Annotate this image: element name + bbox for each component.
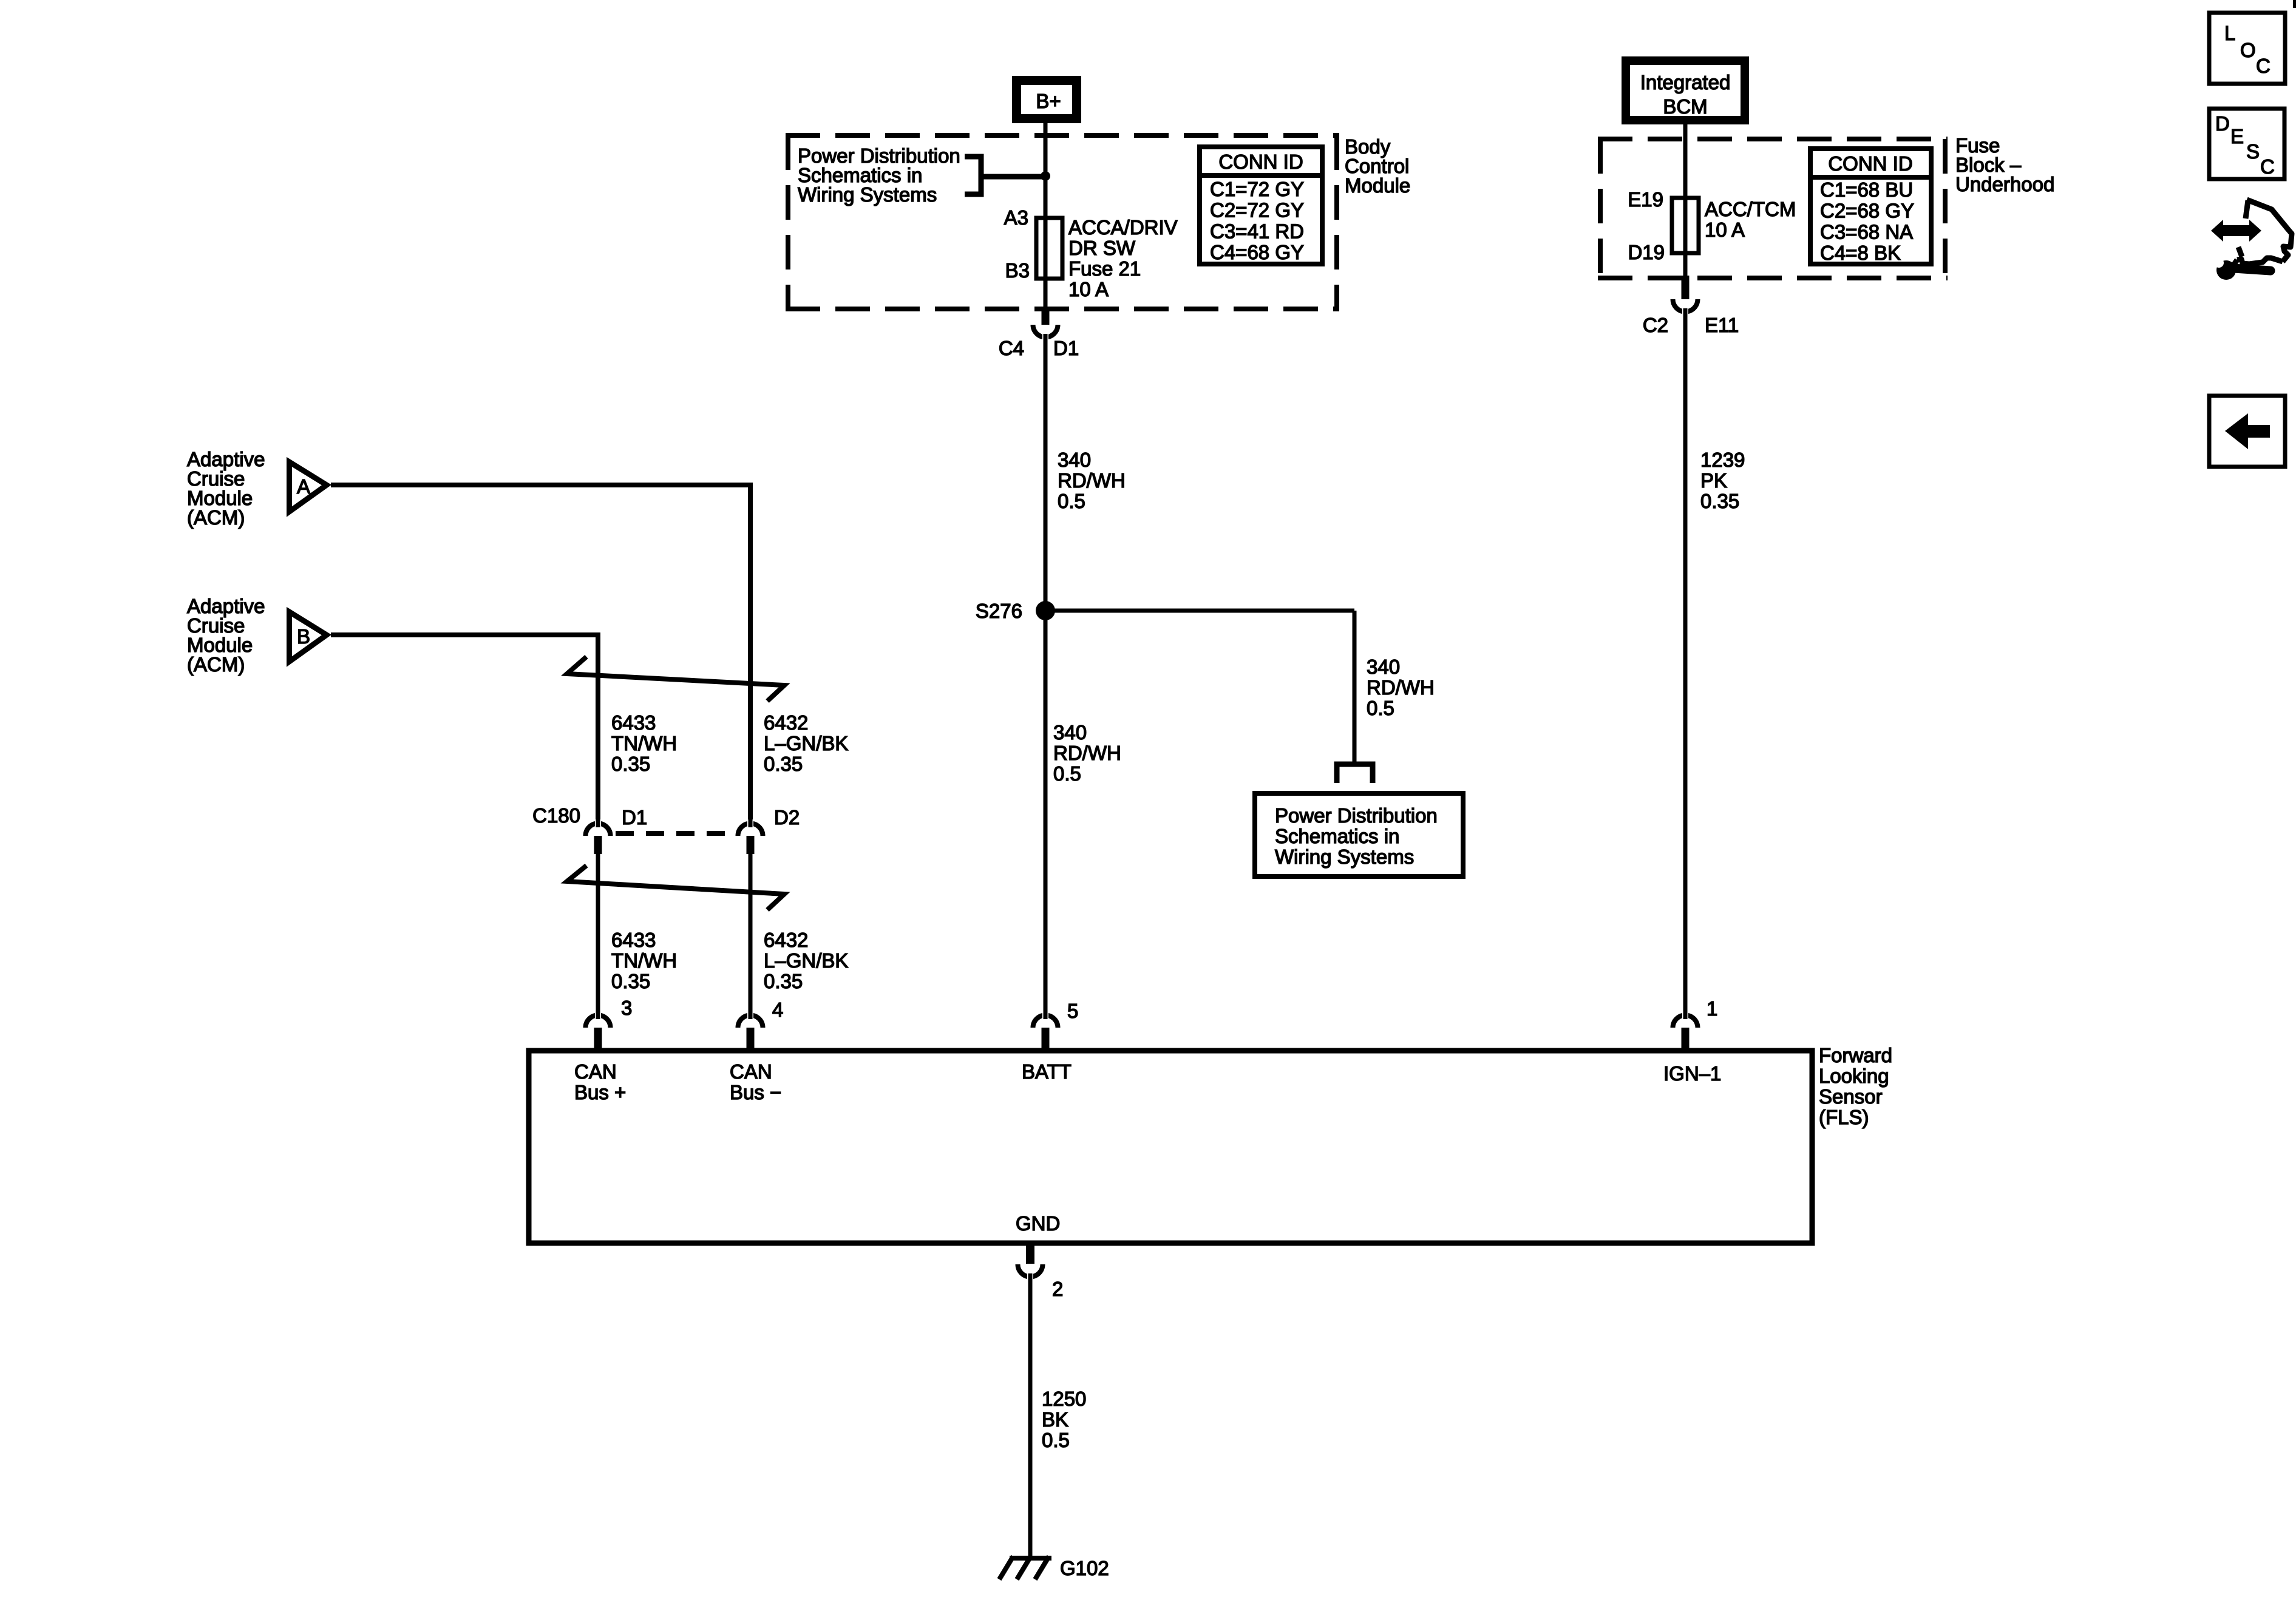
svg-text:Power Distribution: Power Distribution: [1275, 804, 1438, 827]
svg-text:B: B: [297, 625, 310, 648]
bracket from note to wire: [965, 157, 981, 194]
svg-text:BATT: BATT: [1022, 1060, 1072, 1083]
icon LOC box: [2209, 13, 2285, 84]
svg-text:340: 340: [1053, 721, 1087, 744]
svg-text:G102: G102: [1060, 1557, 1109, 1579]
svg-text:1: 1: [1707, 997, 1717, 1020]
splice S276: [1036, 601, 1055, 620]
svg-text:D1: D1: [1053, 337, 1079, 359]
box Power Distribution Schematics in Wiring Systems: [1255, 793, 1463, 876]
svg-text:340: 340: [1058, 449, 1091, 471]
svg-text:C3=68 NA: C3=68 NA: [1820, 220, 1913, 243]
svg-text:6432: 6432: [764, 711, 808, 734]
connector arc C4/D1: [1033, 325, 1058, 337]
svg-text:CAN: CAN: [730, 1060, 772, 1083]
svg-text:B+: B+: [1036, 90, 1061, 112]
svg-text:1239: 1239: [1700, 449, 1745, 471]
svg-text:GND: GND: [1016, 1212, 1060, 1235]
power symbol B+ box: [1012, 76, 1081, 123]
connector C4 / D1 (BCM bottom): [1042, 307, 1050, 325]
svg-text:S: S: [2246, 140, 2260, 163]
pin 1 arc: [1673, 1015, 1698, 1028]
svg-text:BCM: BCM: [1663, 95, 1707, 118]
wire B+ vertical from B+ box through BCM: [1044, 123, 1048, 309]
svg-text:D19: D19: [1628, 241, 1665, 263]
dashed connector link D1-D2: [616, 831, 735, 836]
svg-text:C2=68 GY: C2=68 GY: [1820, 200, 1914, 222]
svg-text:C4=8 BK: C4=8 BK: [1820, 242, 1901, 264]
svg-text:A3: A3: [1004, 206, 1028, 229]
terminal bracket to Power Distribution: [1337, 764, 1373, 783]
pin 3 arc: [586, 1015, 611, 1028]
svg-text:L–GN/BK: L–GN/BK: [764, 949, 848, 972]
svg-text:Sensor: Sensor: [1819, 1085, 1883, 1108]
svg-text:C3=41 RD: C3=41 RD: [1210, 220, 1304, 242]
wire 340 RD/WH from C4/D1 to FLS pin 5: [1044, 335, 1048, 1018]
svg-text:10 A: 10 A: [1705, 219, 1745, 241]
svg-text:Module: Module: [1345, 174, 1410, 197]
svg-text:BK: BK: [1042, 1408, 1068, 1431]
junction dot on B+ wire: [1041, 171, 1050, 181]
svg-text:(FLS): (FLS): [1819, 1106, 1869, 1128]
svg-text:IGN–1: IGN–1: [1663, 1062, 1721, 1085]
svg-text:Fuse 21: Fuse 21: [1068, 257, 1141, 280]
svg-text:Bus +: Bus +: [574, 1081, 626, 1103]
svg-text:Bus −: Bus −: [730, 1081, 781, 1103]
svg-text:0.5: 0.5: [1042, 1429, 1070, 1451]
CONN ID table (BCM): [1200, 147, 1322, 264]
wire from Integrated BCM into fuse block: [1683, 124, 1688, 278]
wire 6432 lower segment: [749, 854, 753, 1018]
svg-text:0.5: 0.5: [1053, 762, 1081, 785]
svg-text:A: A: [297, 475, 310, 498]
svg-text:RD/WH: RD/WH: [1053, 742, 1121, 764]
connector C2 / E11: [1682, 276, 1690, 299]
svg-text:4: 4: [772, 998, 783, 1021]
svg-text:RD/WH: RD/WH: [1367, 676, 1435, 699]
CONN ID table (fuse block): [1810, 149, 1931, 264]
svg-text:TN/WH: TN/WH: [611, 949, 677, 972]
svg-text:340: 340: [1367, 656, 1400, 678]
svg-text:E11: E11: [1705, 314, 1739, 336]
wrench: [2216, 260, 2236, 280]
svg-text:(ACM): (ACM): [187, 506, 245, 529]
svg-text:C4: C4: [999, 337, 1024, 359]
svg-text:C180: C180: [532, 804, 580, 827]
module box Forward Looking Sensor (FLS): [529, 1051, 1812, 1243]
svg-text:Wiring Systems: Wiring Systems: [798, 183, 937, 206]
dashed box Body Control Module: [786, 133, 1339, 138]
svg-text:Looking: Looking: [1819, 1065, 1889, 1087]
svg-text:B3: B3: [1005, 259, 1030, 282]
svg-text:Wiring Systems: Wiring Systems: [1275, 846, 1414, 868]
svg-text:C2=72 GY: C2=72 GY: [1210, 199, 1304, 222]
svg-text:RD/WH: RD/WH: [1058, 469, 1126, 492]
connector arc D2: [738, 824, 763, 836]
svg-text:PK: PK: [1700, 469, 1727, 492]
svg-text:2: 2: [1052, 1278, 1063, 1300]
svg-text:ACC/TCM: ACC/TCM: [1705, 198, 1796, 220]
module Integrated BCM box: [1622, 56, 1749, 124]
double arrow: [2211, 220, 2261, 242]
dashed box Fuse Block - Underhood: [1598, 137, 1948, 141]
wire 6433 lower segment: [596, 854, 600, 1018]
connector arc D1: [586, 824, 611, 836]
svg-text:Schematics in: Schematics in: [1275, 825, 1399, 847]
svg-text:Underhood: Underhood: [1955, 173, 2054, 195]
svg-text:6433: 6433: [611, 711, 656, 734]
icon DESC box: [2209, 109, 2284, 179]
off-page triangle B: [290, 612, 327, 662]
svg-text:E: E: [2230, 125, 2244, 147]
svg-text:5: 5: [1067, 1000, 1078, 1022]
svg-text:CONN ID: CONN ID: [1218, 151, 1303, 173]
wire 1250 BK to ground: [1028, 1275, 1033, 1556]
svg-text:DR SW: DR SW: [1068, 237, 1136, 259]
svg-text:Forward: Forward: [1819, 1044, 1892, 1066]
svg-text:6433: 6433: [611, 929, 656, 951]
svg-text:ACCA/DRIV: ACCA/DRIV: [1068, 216, 1178, 239]
svg-text:0.5: 0.5: [1058, 490, 1085, 512]
ground symbol G102: [1010, 1556, 1051, 1561]
page corner mark: [2293, 0, 2296, 8]
svg-text:(ACM): (ACM): [187, 653, 245, 676]
svg-text:0.35: 0.35: [611, 753, 650, 775]
svg-text:0.35: 0.35: [1700, 490, 1739, 512]
svg-text:S276: S276: [976, 600, 1022, 622]
svg-text:C4=68 GY: C4=68 GY: [1210, 241, 1304, 263]
svg-text:C: C: [2256, 55, 2271, 77]
svg-text:D: D: [2215, 112, 2230, 135]
svg-text:D2: D2: [774, 806, 800, 829]
twisted pair marker (lower): [567, 866, 784, 910]
svg-text:0.35: 0.35: [611, 970, 650, 992]
svg-text:10 A: 10 A: [1068, 278, 1109, 300]
fuse ACCA/DRIV DR SW Fuse 21 10 A: [1036, 218, 1062, 279]
pin 5 arc: [1033, 1015, 1058, 1028]
pin 2 arc: [1018, 1264, 1043, 1276]
wire 1239 PK to FLS pin 1: [1683, 310, 1688, 1018]
svg-text:C2: C2: [1643, 314, 1668, 336]
wire CAN bus + from B to D1: [331, 635, 598, 819]
connector arc C2/E11: [1673, 299, 1698, 312]
svg-text:1250: 1250: [1042, 1388, 1086, 1410]
pin 4 arc: [738, 1015, 763, 1028]
fuse ACC/TCM 10 A: [1672, 198, 1699, 253]
wire CAN bus - from A to D2: [331, 485, 750, 819]
svg-text:C1=68 BU: C1=68 BU: [1820, 178, 1913, 201]
svg-text:CONN ID: CONN ID: [1828, 152, 1912, 175]
icon back arrow box: [2209, 396, 2285, 467]
connector pin 2 (GND): [1026, 1242, 1034, 1264]
twisted pair marker (upper): [567, 657, 784, 701]
svg-text:C: C: [2260, 155, 2275, 178]
svg-text:O: O: [2240, 39, 2256, 61]
svg-text:E19: E19: [1628, 188, 1663, 211]
svg-text:Integrated: Integrated: [1640, 71, 1731, 93]
svg-text:L: L: [2224, 22, 2235, 44]
wire branch from S276: [1045, 609, 1354, 613]
svg-text:TN/WH: TN/WH: [611, 732, 677, 754]
svg-text:0.35: 0.35: [764, 753, 803, 775]
svg-text:CAN: CAN: [574, 1060, 617, 1083]
svg-text:C1=72 GY: C1=72 GY: [1210, 178, 1304, 200]
svg-text:0.5: 0.5: [1367, 697, 1394, 719]
svg-text:3: 3: [621, 997, 632, 1019]
svg-text:0.35: 0.35: [764, 970, 803, 992]
off-page triangle A: [290, 462, 327, 512]
svg-text:L–GN/BK: L–GN/BK: [764, 732, 848, 754]
svg-text:D1: D1: [622, 806, 647, 829]
icon hand with wrench and double arrow: [2232, 200, 2292, 267]
svg-text:6432: 6432: [764, 929, 808, 951]
